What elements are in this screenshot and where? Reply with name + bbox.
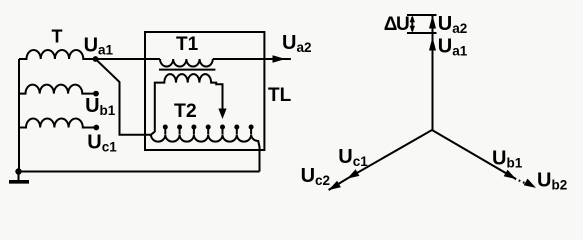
ground bar: [9, 180, 29, 184]
tap stems of T2: [165, 129, 251, 134]
node Ub1 terminal dot: [93, 91, 99, 97]
svg-text:Ub1: Ub1: [492, 148, 523, 171]
arrowhead Uc2: [329, 181, 341, 190]
wire: line continuing to arrow Ua2: [213, 58, 291, 60]
wire: bottom return bus to ground: [19, 171, 260, 173]
svg-text:Ua1: Ua1: [438, 36, 468, 59]
vector Uc1 and Uc2 line: [329, 130, 432, 190]
svg-text:T1: T1: [176, 34, 199, 55]
transformer T1 core line: [159, 69, 215, 71]
ground stub: [18, 172, 20, 181]
svg-text:Uc1: Uc1: [338, 146, 368, 169]
inductor T2 tapped regulating winding: [151, 135, 260, 172]
arrowhead delta-U bottom: [410, 26, 415, 33]
vector Ub1 line: [432, 130, 516, 179]
arrowhead of T2 wiper: [218, 109, 226, 120]
inductor T phase B winding: [19, 85, 96, 94]
svg-text:Ua2: Ua2: [438, 13, 467, 36]
svg-text:TL: TL: [268, 85, 292, 106]
svg-text:T2: T2: [174, 100, 197, 122]
svg-text:ΔU: ΔU: [384, 14, 409, 35]
inductor T1 secondary winding with leads to T2 wiper: [151, 74, 223, 135]
arrowhead of output line Ua2: [273, 55, 286, 63]
tick at Ua2 tip: [407, 14, 437, 16]
delta-U measure stem: [411, 17, 413, 31]
ground junction dot: [15, 168, 21, 174]
wire: left vertical bus of source winding T: [18, 59, 20, 172]
svg-text:Ua1: Ua1: [84, 35, 114, 58]
svg-text:Ub1: Ub1: [85, 95, 116, 118]
tap dots of T2: [163, 125, 254, 130]
node Uc1 terminal dot: [93, 125, 99, 131]
svg-text:Uc1: Uc1: [87, 132, 117, 155]
arrowhead Ua2 phasor: [429, 15, 436, 29]
phasor diagram: [329, 15, 516, 190]
arrowhead delta-U top: [410, 15, 415, 22]
dashed extension to Ub2: [515, 178, 531, 185]
wire: tap from node Ua1 down to regulating winding T2: [96, 59, 152, 135]
wire: line from node Ua1 through T1 series winding to output arrow Ua2: [96, 58, 161, 60]
node Ua1 junction dot: [93, 56, 99, 62]
svg-text:Uc2: Uc2: [301, 165, 330, 188]
arrowhead Ub2: [524, 179, 536, 188]
arrowhead Uc1: [347, 169, 359, 178]
inductor T1 primary (series) winding: [160, 59, 213, 67]
enclosure box TL: [145, 32, 264, 150]
svg-text:T: T: [52, 27, 63, 47]
arrowhead Ub1: [504, 170, 516, 179]
tick at Ua1 tip: [407, 32, 437, 34]
svg-text:Ub2: Ub2: [537, 169, 567, 192]
inductor T phase C winding: [19, 119, 96, 128]
vector Ua1/Ua2 vertical line: [432, 15, 434, 130]
arrowhead Ua1 phasor: [429, 37, 436, 51]
inductor T phase A winding: [19, 50, 96, 59]
svg-text:Ua2: Ua2: [282, 32, 311, 55]
